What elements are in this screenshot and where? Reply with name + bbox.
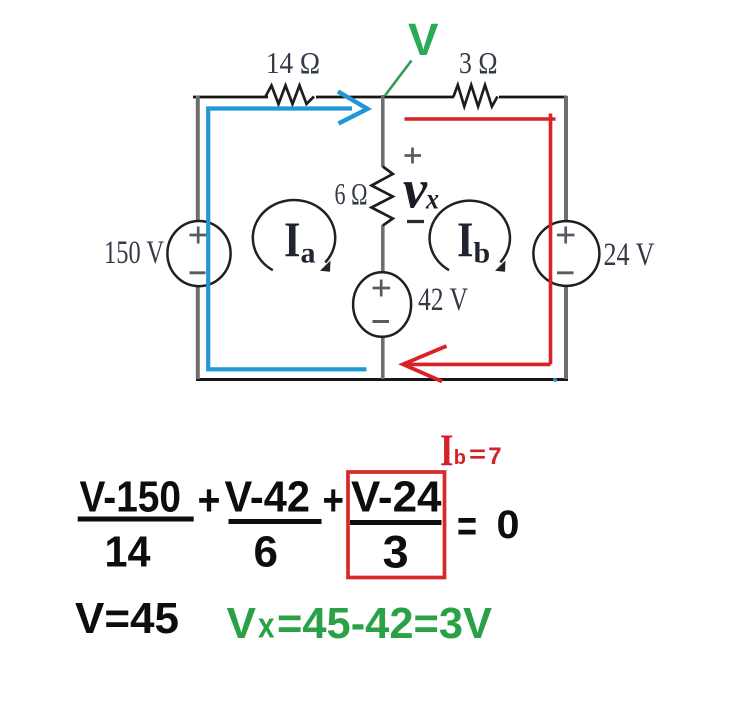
svg-text:14: 14: [105, 527, 151, 576]
mesh current Ia arc: [253, 200, 335, 270]
wire left upper: [196, 96, 200, 222]
svg-text:b: b: [454, 447, 466, 469]
svg-text:I: I: [284, 211, 301, 267]
svg-text:=: =: [469, 442, 486, 469]
svg-text:V-42: V-42: [225, 473, 311, 522]
svg-text:I: I: [440, 426, 454, 476]
source V3 42V circle: [353, 272, 411, 337]
svg-text:b: b: [474, 237, 491, 270]
source V2 plus: [557, 227, 575, 244]
svg-text:V=45: V=45: [75, 594, 179, 643]
svg-text:0: 0: [497, 503, 520, 547]
svg-text:14 Ω: 14 Ω: [266, 45, 320, 80]
svg-text:150 V: 150 V: [104, 235, 164, 271]
equation fraction bar 2: [229, 519, 322, 524]
svg-text:V: V: [408, 14, 439, 65]
svg-text:6 Ω: 6 Ω: [335, 176, 368, 211]
svg-text:V: V: [227, 599, 257, 648]
wire left lower: [196, 286, 200, 379]
source V1 minus: [190, 271, 206, 274]
red mesh loop bottom wire: [408, 363, 551, 367]
svg-text:=45-42=3V: =45-42=3V: [277, 599, 493, 648]
resistor R 3ohm: [454, 85, 498, 107]
blue mesh loop wire: [208, 109, 366, 370]
svg-text:v: v: [403, 159, 428, 220]
svg-text:I: I: [457, 211, 474, 267]
svg-text:+: +: [198, 476, 221, 525]
resistor R 6ohm vertical: [372, 167, 393, 226]
blue loop arrowhead: [338, 92, 368, 124]
wire top-right segment: [499, 96, 567, 99]
red mesh loop top wire: [405, 117, 556, 121]
mesh current Ia arrowhead: [320, 261, 331, 272]
source V2 minus: [557, 271, 574, 274]
svg-text:3: 3: [383, 527, 409, 578]
svg-text:V-150: V-150: [80, 473, 182, 522]
svg-text:a: a: [301, 237, 316, 270]
resistor R 14ohm: [266, 86, 315, 105]
vx plus: [405, 148, 422, 164]
wire middle upper: [381, 95, 385, 167]
wire right upper: [564, 96, 568, 222]
source V1 plus: [190, 227, 208, 244]
wire top-left segment: [193, 96, 268, 99]
svg-text:24 V: 24 V: [604, 237, 655, 273]
svg-text:x: x: [258, 605, 275, 646]
source V1 150V circle: [167, 221, 230, 286]
red loop arrowhead: [403, 346, 447, 382]
wire middle between resistor and source: [381, 225, 385, 274]
vx minus: [407, 220, 424, 223]
svg-text:42 V: 42 V: [418, 282, 468, 318]
red box around third term: [348, 472, 445, 578]
svg-text:=: =: [457, 502, 477, 551]
svg-text:7: 7: [488, 443, 501, 470]
wire top-middle segment: [316, 96, 454, 99]
svg-text:x: x: [425, 183, 439, 216]
svg-text:V-24: V-24: [351, 473, 442, 522]
equation fraction bar 3: [350, 520, 442, 525]
wire right lower: [564, 286, 568, 379]
red mesh loop right wire: [549, 114, 553, 365]
source V3 plus: [373, 280, 391, 297]
svg-text:3 Ω: 3 Ω: [459, 45, 498, 80]
mesh current Ib arc: [430, 201, 510, 270]
svg-text:6: 6: [254, 527, 279, 576]
wire bottom: [196, 378, 568, 381]
svg-text:+: +: [323, 476, 345, 525]
source V2 24V circle: [533, 221, 599, 286]
blue junction dot on bottom wire: [553, 378, 557, 382]
wire middle lower: [381, 336, 385, 379]
source V3 minus: [373, 320, 390, 323]
equation fraction bar 1: [78, 517, 194, 522]
mesh current Ib arrowhead: [495, 261, 506, 272]
node V green marker line: [385, 61, 412, 96]
